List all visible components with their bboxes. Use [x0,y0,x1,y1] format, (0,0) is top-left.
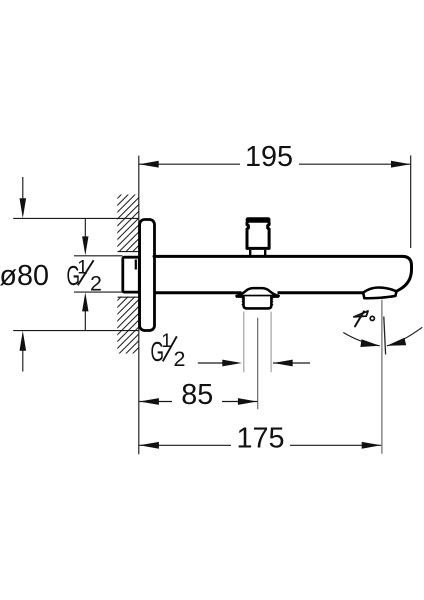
spout mouth [363,288,396,299]
svg-text:2: 2 [90,271,102,295]
dim 195 line [139,163,240,165]
hose outline right [270,312,272,373]
dim G1/2 extension line top [74,255,123,257]
spout body top + right edge [154,256,412,291]
4 deg tilted line [384,317,386,355]
svg-text:2: 2 [174,347,186,371]
thread dim line right with arrow [273,362,310,364]
knob collar [249,250,251,256]
angle arc right branch [387,327,423,346]
svg-text:ø80: ø80 [0,260,49,292]
connector thread serrations [241,298,244,301]
spout body bottom line left segment [154,291,242,294]
spout body bottom line right segment [278,291,364,294]
dim G1/2 extension line bottom [74,291,123,293]
dim 80 extension line bottom [13,330,139,332]
dim 85 line [139,401,172,403]
knob body [247,223,269,249]
dim 175 line [139,444,231,446]
dim G1/2 arrow top [84,219,86,238]
label G1/2 bottom [151,331,186,371]
center extension line of bottom outlet [257,318,259,410]
angle text 4deg [354,311,375,326]
dim 195 extension line right [410,155,412,248]
label G1/2 left [67,258,102,296]
hose outline left [243,312,245,373]
angle arc left branch [343,333,380,346]
svg-text:1: 1 [77,258,88,279]
knob cap [246,217,271,223]
outlet dome [237,288,279,296]
nipple inner edge [135,260,137,270]
outlet dome base line [236,295,279,298]
wall hatching lower band [56,294,295,355]
threaded connector [244,296,272,308]
wall opening edge upper [118,251,139,253]
G1/2 nipple [123,257,140,292]
wall face line [138,156,140,455]
svg-text:85: 85 [181,379,213,411]
wall hatching upper band [56,192,295,253]
svg-text:195: 195 [245,141,293,173]
outlet vertical reference line [381,300,383,454]
flange [140,220,155,331]
dim G1/2 arrow bottom [84,311,86,330]
dim 80 arrow top [22,177,24,200]
wall opening edge lower [118,296,139,298]
dim 80 arrow bottom [22,348,24,372]
thread dim line left with arrow [198,362,230,364]
svg-text:175: 175 [236,422,284,454]
dim 80 extension line top [13,217,139,219]
